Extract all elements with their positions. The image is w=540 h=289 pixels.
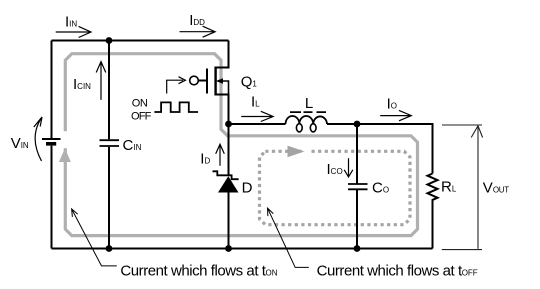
- svg-text:CIN: CIN: [123, 137, 142, 154]
- svg-text:D: D: [242, 180, 253, 197]
- svg-text:VOUT: VOUT: [483, 179, 509, 196]
- svg-text:OFF: OFF: [131, 110, 152, 122]
- svg-text:ON: ON: [132, 98, 148, 110]
- svg-text:RL: RL: [441, 179, 457, 196]
- svg-text:Current which flows at tOFF: Current which flows at tOFF: [317, 263, 478, 280]
- svg-text:IIN: IIN: [65, 14, 77, 31]
- svg-text:ICIN: ICIN: [73, 76, 91, 93]
- svg-text:CO: CO: [372, 180, 389, 197]
- svg-text:L: L: [305, 95, 313, 112]
- svg-text:ICO: ICO: [327, 161, 343, 178]
- svg-text:Q1: Q1: [241, 74, 258, 91]
- svg-text:ID: ID: [200, 151, 210, 168]
- svg-text:IO: IO: [387, 96, 397, 113]
- svg-text:VIN: VIN: [11, 135, 29, 152]
- svg-text:Current which flows at tON: Current which flows at tON: [120, 263, 277, 280]
- svg-text:IDD: IDD: [189, 12, 205, 29]
- svg-text:IL: IL: [251, 94, 260, 111]
